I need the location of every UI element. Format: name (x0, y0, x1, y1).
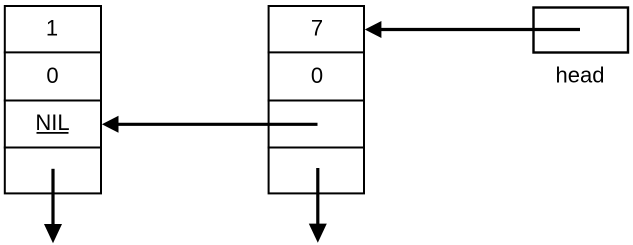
node 1 next-pointer down arrow (44, 169, 62, 243)
node 2 box (268, 6, 365, 193)
svg-text:7: 7 (311, 16, 323, 41)
svg-text:NIL: NIL (35, 110, 69, 135)
arrow head to node 2 (365, 21, 580, 38)
head box (534, 8, 629, 53)
node 2 next-pointer down arrow (309, 168, 327, 243)
node 1 NIL label (35, 110, 69, 135)
svg-text:0: 0 (311, 63, 323, 88)
svg-text:head: head (556, 63, 605, 88)
svg-text:1: 1 (46, 16, 58, 41)
arrow node2 prev-pointer to node1 NIL (102, 116, 318, 133)
node 1 box (4, 6, 102, 193)
svg-text:0: 0 (46, 63, 58, 88)
